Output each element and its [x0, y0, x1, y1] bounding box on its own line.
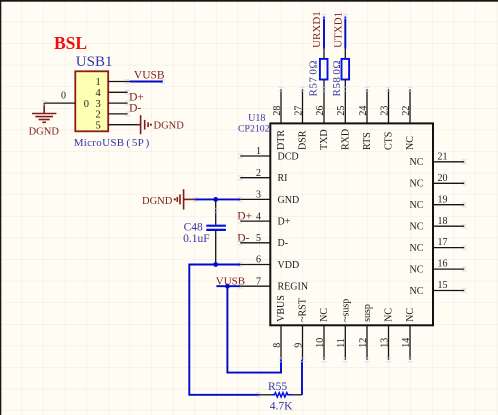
svg-text:R55: R55: [268, 381, 287, 393]
svg-text:URXD1: URXD1: [311, 11, 323, 48]
svg-text:CTS: CTS: [384, 132, 395, 150]
U18 pin 10 NC (bottom): [315, 308, 330, 360]
svg-text:RI: RI: [278, 173, 288, 184]
wire URXD1: [323, 17, 325, 49]
svg-text:3: 3: [256, 190, 261, 201]
wire GND net (IC pin 3): [195, 198, 240, 200]
svg-text:NC: NC: [409, 200, 423, 211]
svg-text:NC: NC: [409, 286, 423, 297]
connector USB1 body: [75, 71, 108, 131]
svg-text:DGND: DGND: [154, 120, 185, 131]
U18 pin 17 NC (right): [409, 237, 464, 254]
svg-text:19: 19: [438, 194, 448, 205]
svg-text:DGND: DGND: [142, 196, 173, 207]
svg-text:NC: NC: [409, 265, 423, 276]
svg-text:14: 14: [401, 338, 412, 348]
svg-text:D+: D+: [237, 211, 252, 223]
svg-text:TXD: TXD: [319, 129, 330, 150]
USB1 pin 3: [96, 99, 128, 110]
svg-text:0: 0: [84, 99, 89, 110]
svg-text:1: 1: [96, 77, 101, 88]
svg-text:VUSB: VUSB: [134, 70, 165, 82]
junction VDD/C48: [213, 262, 218, 267]
U18 pin 23 CTS (top): [379, 89, 394, 150]
svg-text:28: 28: [272, 106, 283, 116]
U18 pin 24 RTS (top): [358, 89, 373, 150]
svg-text:DSR: DSR: [298, 130, 309, 150]
U18 pin 26 TXD (top): [315, 80, 330, 151]
USB1 pin 2: [96, 110, 128, 121]
svg-text:R570Ω: R570Ω: [308, 60, 320, 97]
svg-text:20: 20: [438, 173, 448, 184]
svg-text:27: 27: [293, 106, 304, 116]
U18 pin 18 NC (right): [409, 216, 464, 233]
svg-text:DCD: DCD: [278, 151, 299, 162]
svg-text:12: 12: [358, 338, 369, 348]
svg-text:RTS: RTS: [362, 132, 373, 150]
svg-text:D-: D-: [129, 103, 141, 115]
U18 pin 3 GND: [240, 190, 299, 206]
U18 pin 14 NC (bottom): [401, 308, 416, 360]
svg-text:D-: D-: [278, 238, 289, 249]
U18 pin 9 ~RST (bottom): [293, 298, 308, 360]
wire UTXD1: [344, 17, 346, 49]
svg-text:4: 4: [96, 88, 102, 99]
capacitor C48: [206, 199, 226, 264]
U18 pin 11 ~susp (bottom): [336, 299, 351, 360]
USB1 pin 5: [96, 120, 137, 131]
U18 pin 5 D-: [240, 233, 288, 249]
svg-text:DTR: DTR: [276, 130, 287, 150]
svg-text:D-: D-: [237, 232, 249, 244]
svg-text:C48: C48: [184, 222, 203, 234]
svg-text:CP2102: CP2102: [238, 123, 270, 134]
svg-text:R580Ω: R580Ω: [331, 60, 343, 97]
junction VUSB tee: [225, 284, 230, 289]
svg-text:MicroUSB(5P): MicroUSB(5P): [74, 137, 150, 149]
ground DGND (earth symbol left of USB1): [32, 103, 56, 122]
svg-text:15: 15: [438, 280, 448, 291]
U18 pin 1 DCD: [240, 146, 298, 162]
svg-text:RXD: RXD: [340, 129, 351, 150]
svg-text:REGIN: REGIN: [278, 282, 309, 293]
svg-text:5: 5: [96, 120, 101, 131]
svg-text:24: 24: [358, 106, 369, 116]
svg-text:~RST: ~RST: [298, 298, 309, 322]
svg-text:2: 2: [256, 168, 261, 179]
svg-text:1: 1: [256, 146, 261, 157]
resistor R57: [320, 49, 328, 80]
svg-text:USB1: USB1: [76, 54, 113, 70]
resistor R58: [342, 49, 350, 80]
svg-text:NC: NC: [409, 157, 423, 168]
svg-text:VBUS: VBUS: [276, 295, 287, 322]
U18 pin 16 NC (right): [409, 259, 464, 276]
svg-text:VUSB: VUSB: [216, 276, 245, 288]
USB1 pin 0 (left): [44, 91, 89, 110]
wire VDD net (pin 6, down to R55): [189, 265, 258, 395]
svg-text:VDD: VDD: [278, 260, 300, 271]
resistor R55: [259, 393, 303, 397]
IC U18 body: [270, 123, 433, 325]
svg-text:NC: NC: [409, 179, 423, 190]
U18 pin 19 NC (right): [409, 194, 464, 211]
svg-text:4: 4: [256, 211, 261, 222]
svg-text:2: 2: [96, 110, 101, 121]
svg-text:3: 3: [96, 99, 101, 110]
svg-text:BSL: BSL: [54, 33, 87, 53]
U18 pin 15 NC (right): [409, 280, 464, 297]
svg-text:4.7K: 4.7K: [270, 400, 293, 412]
svg-text:13: 13: [379, 338, 390, 348]
svg-text:GND: GND: [278, 195, 300, 206]
svg-text:5: 5: [256, 233, 261, 244]
svg-text:18: 18: [438, 216, 448, 227]
U18 pin 28 DTR (top): [272, 89, 287, 150]
U18 pin 25 RXD (top): [336, 80, 351, 151]
svg-text:11: 11: [336, 338, 347, 348]
svg-text:NC: NC: [384, 308, 395, 322]
svg-text:U18: U18: [248, 113, 265, 124]
svg-text:7: 7: [256, 276, 261, 287]
svg-text:susp: susp: [362, 304, 373, 322]
USB1 pin 4: [96, 88, 128, 99]
svg-text:10: 10: [315, 338, 326, 348]
svg-text:21: 21: [438, 151, 448, 162]
junction GND/C48: [213, 197, 218, 202]
svg-text:25: 25: [336, 106, 347, 116]
svg-text:UTXD1: UTXD1: [333, 12, 345, 48]
U18 pin 22 NC (top): [401, 89, 416, 150]
svg-text:NC: NC: [405, 308, 416, 322]
svg-text:NC: NC: [409, 222, 423, 233]
svg-text:8: 8: [272, 343, 283, 348]
svg-text:D+: D+: [278, 217, 291, 228]
U18 pin 20 NC (right): [409, 173, 464, 190]
wire ~RST (R55 to pin 9): [301, 360, 303, 395]
svg-text:16: 16: [438, 259, 448, 270]
wire VUSB (USB1 pin 1): [130, 81, 163, 83]
svg-text:0: 0: [61, 91, 66, 102]
svg-text:NC: NC: [405, 136, 416, 150]
svg-text:~susp: ~susp: [340, 299, 351, 322]
USB1 pin 1: [96, 77, 130, 88]
power symbol DGND (USB1 pin 5): [137, 115, 149, 134]
svg-text:6: 6: [256, 255, 261, 266]
wire VUSB net (pin 7 / pin 8): [216, 286, 281, 372]
U18 pin 7 REGIN: [240, 276, 308, 292]
U18 pin 2 RI: [240, 168, 287, 184]
svg-text:23: 23: [379, 106, 390, 116]
svg-text:22: 22: [401, 106, 412, 116]
svg-text:9: 9: [293, 343, 304, 348]
U18 pin 21 NC (right): [409, 151, 464, 168]
svg-text:0.1uF: 0.1uF: [183, 233, 210, 245]
U18 pin 6 VDD: [240, 255, 299, 271]
U18 pin 4 D+: [240, 211, 291, 227]
U18 pin 12 susp (bottom): [358, 304, 373, 360]
svg-text:NC: NC: [319, 308, 330, 322]
svg-text:DGND: DGND: [29, 126, 60, 137]
power symbol DGND (IC pin 3): [177, 189, 195, 209]
U18 pin 13 NC (bottom): [379, 308, 394, 360]
no-ERC / connection end markers: [42, 14, 467, 398]
U18 pin 27 DSR (top): [293, 89, 308, 150]
svg-text:17: 17: [438, 237, 448, 248]
svg-text:NC: NC: [409, 243, 423, 254]
U18 pin 8 VBUS (bottom): [272, 295, 287, 360]
svg-text:26: 26: [315, 106, 326, 116]
